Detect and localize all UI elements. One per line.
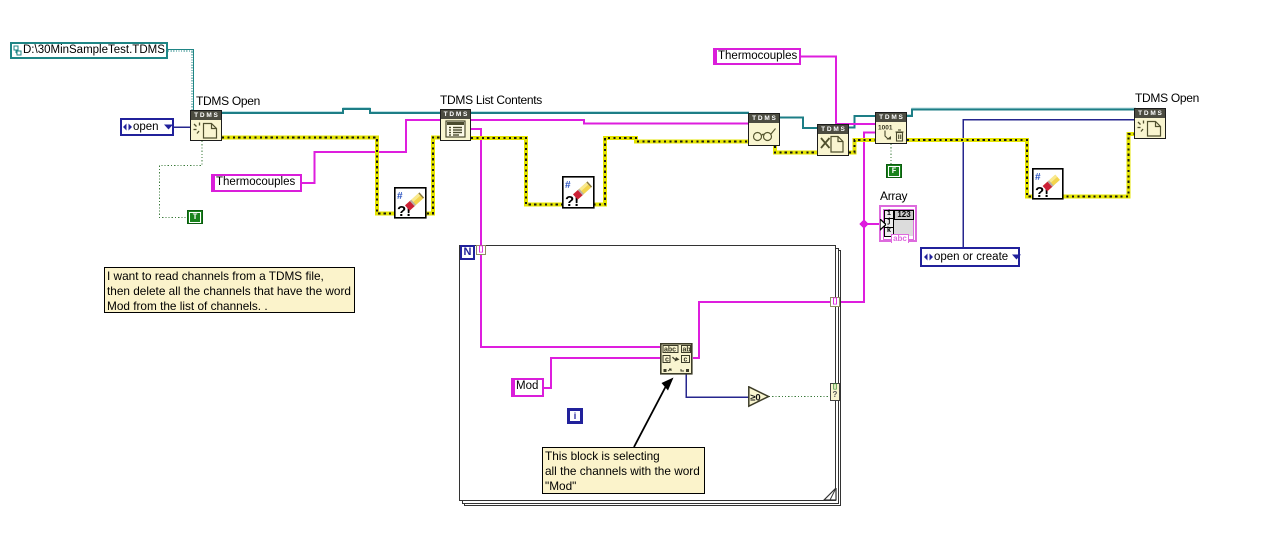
svg-text:ab: ab <box>683 347 691 354</box>
svg-text:#: # <box>1035 172 1041 183</box>
svg-text:c: c <box>665 357 669 364</box>
svg-text:c: c <box>684 357 688 364</box>
svg-text:#: # <box>565 180 571 191</box>
svg-text:#: # <box>397 191 403 202</box>
svg-text:1001: 1001 <box>878 125 893 132</box>
svg-text:≥0: ≥0 <box>750 393 761 404</box>
svg-text:abc: abc <box>664 347 676 354</box>
